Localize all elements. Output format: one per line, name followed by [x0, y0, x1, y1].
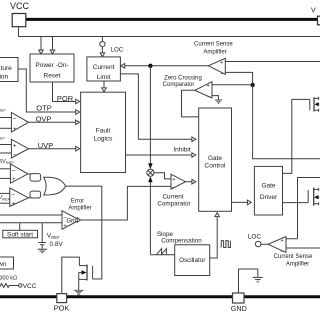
pin LOC (bottom)	[248, 234, 262, 247]
wire OVP to fault logics	[29, 121, 76, 123]
error amplifier Gm	[62, 211, 81, 230]
wire U2 output to gate control	[182, 90, 199, 117]
wire Inhibit: fault logics to gate control	[126, 154, 196, 156]
wire U2 minus input to ground	[212, 96, 219, 100]
wire U3 output to gate control	[186, 181, 196, 183]
svg-text:LOC: LOC	[111, 47, 124, 53]
ground (VREF source)	[38, 249, 48, 253]
comparator C3 input wires	[0, 168, 10, 170]
svg-text:Amplifier: Amplifier	[68, 206, 91, 212]
comparator UVP input wires	[0, 144, 11, 146]
svg-text:Compensation: Compensation	[161, 238, 202, 245]
wire LOC to current limit	[101, 47, 103, 53]
svg-text:Inhibit: Inhibit	[173, 146, 191, 153]
svg-text:VCC: VCC	[10, 1, 30, 11]
Temperature Protection block (clipped at left)	[0, 58, 18, 82]
svg-text:Reset: Reset	[44, 72, 61, 79]
svg-text:Current Sense: Current Sense	[194, 41, 233, 47]
wire rail to Power-On-Reset pin 2	[52, 37, 54, 51]
svg-text:Control: Control	[205, 163, 227, 170]
svg-text:UVP: UVP	[38, 141, 53, 150]
ground (internal, near GND pin)	[253, 277, 263, 281]
wire C4 to OR gate	[28, 197, 31, 199]
wire FB input to Gm minus	[0, 214, 62, 216]
svg-text:Current Sense: Current Sense	[274, 254, 313, 260]
svg-text:Zero Crossing: Zero Crossing	[164, 75, 202, 81]
solid arrow into summing node (top)	[148, 163, 152, 169]
pin VCC (pull-up, circle)	[19, 284, 22, 287]
wire A1 output to current limit	[121, 65, 209, 67]
svg-text:VREF: VREF	[47, 232, 60, 240]
svg-text:Driver: Driver	[260, 194, 278, 201]
wire oscillator to slope ramp	[150, 254, 174, 256]
svg-text:POR: POR	[57, 94, 74, 103]
comparator C4	[10, 188, 29, 208]
svg-text:+: +	[281, 238, 284, 244]
transistor Q2 (external bottom MOSFET, clipped)	[308, 188, 318, 206]
junction dot B	[250, 83, 254, 87]
transistor Q1 (external top MOSFET, clipped)	[310, 97, 319, 112]
wire oscillator clock to gate control	[210, 217, 218, 259]
svg-text:Error: Error	[71, 199, 84, 205]
wire oscillator ramp to summing node	[149, 182, 151, 255]
wire gate driver to Q1 gate	[283, 99, 310, 173]
wire A2 output to LOC pin	[261, 243, 268, 245]
svg-text:Protection: Protection	[0, 74, 9, 81]
comparator C4 input wires	[0, 192, 10, 194]
svg-text:OTP: OTP	[36, 104, 51, 113]
wire Gm output to current comparator minus	[80, 186, 172, 220]
svg-text:0.8V: 0.8V	[50, 241, 64, 248]
solid arrow into summing node (bottom)	[148, 176, 152, 182]
wire junction A down to summing node	[149, 66, 151, 164]
svg-text:+: +	[207, 83, 210, 89]
svg-text:+: +	[220, 60, 223, 66]
svg-text:VREF: VREF	[0, 195, 11, 201]
Current Limit block	[87, 57, 121, 81]
VCC rail (top thick wire)	[26, 18, 318, 21]
svg-text:Gate: Gate	[208, 155, 222, 162]
wire OR gate output to POK transistor gate	[66, 186, 102, 279]
svg-text:VREF: VREF	[0, 106, 6, 112]
wire gate driver to Q2 gate	[283, 202, 309, 204]
ground (zero crossing comparator)	[215, 100, 222, 103]
svg-text:Amplifier: Amplifier	[203, 49, 226, 55]
pin VCC	[10, 1, 30, 27]
comparator C3	[10, 164, 28, 183]
wire gate control to gate driver	[232, 201, 252, 203]
reference source VREF 0.8V	[38, 223, 46, 249]
svg-text:Amplifier: Amplifier	[286, 262, 309, 268]
current sense amplifier A1 (top)	[208, 58, 225, 77]
svg-text:Oscillator: Oscillator	[179, 257, 205, 264]
wire A2 top input	[286, 238, 298, 240]
svg-text:GND: GND	[231, 304, 247, 313]
svg-text:POK: POK	[54, 304, 70, 313]
slope ramp waveform glyph	[157, 249, 167, 255]
svg-text:Gate: Gate	[261, 182, 275, 189]
wire current limit to gate control (input 1)	[120, 74, 195, 139]
wire summing node to current comparator	[154, 173, 171, 179]
internal VCC net (thin rail)	[19, 36, 320, 38]
comparator OVP	[11, 113, 28, 134]
pin VIN (right edge, clipped)	[311, 8, 320, 25]
svg-text:Shutdown: Shutdown	[0, 261, 7, 268]
svg-text:Logics: Logics	[94, 135, 114, 142]
Gate Control block	[199, 108, 232, 211]
pin POK	[54, 294, 70, 313]
OR gate U-or	[44, 177, 66, 195]
svg-text:Fault: Fault	[96, 127, 111, 134]
svg-text:+: +	[12, 177, 16, 183]
bottom ground rail (thick wire)	[0, 295, 320, 298]
wire rail to Power-On-Reset pin 1	[40, 37, 42, 51]
wire soft start to plus rail	[19, 223, 21, 231]
pin LOC (top)	[100, 37, 124, 54]
Soft start block	[3, 230, 38, 238]
svg-text:+: +	[64, 224, 67, 230]
wire node B down to sense line	[253, 85, 320, 159]
OR gate input tabs	[30, 174, 41, 182]
svg-text:+: +	[12, 202, 16, 208]
wire U2 plus input to node B	[212, 84, 253, 86]
resistor R1 300k pull-up	[0, 284, 19, 288]
clock waveform glyph	[221, 241, 230, 248]
wire current limit to fault logics	[103, 81, 105, 88]
svg-text:300 kΩ: 300 kΩ	[0, 276, 17, 282]
svg-text:Soft start: Soft start	[7, 231, 33, 238]
svg-text:Gm: Gm	[67, 218, 77, 224]
wire Q2 sense node	[298, 178, 320, 239]
svg-text:+: +	[13, 127, 17, 133]
Gate Driver block	[254, 166, 282, 215]
svg-text:Temperature: Temperature	[0, 65, 12, 72]
svg-text:LOC: LOC	[248, 234, 262, 241]
svg-text:Comparator: Comparator	[157, 200, 190, 207]
wire VCC pin to internal rail	[18, 27, 20, 37]
wire C3 to OR gate	[28, 173, 31, 175]
wire A2 bottom input to right edge	[286, 247, 320, 249]
ground (POK transistor)	[74, 290, 83, 295]
svg-text:Limit: Limit	[97, 74, 111, 81]
wire POR: power-on-reset to fault logics	[53, 82, 76, 102]
comparator OVP input wires	[0, 117, 11, 119]
svg-text:5VREF: 5VREF	[0, 159, 14, 165]
svg-text:Power -On-: Power -On-	[35, 62, 68, 69]
pin GND	[231, 293, 247, 313]
svg-text:Current: Current	[163, 193, 184, 200]
transistor Q3 (POK open drain)	[79, 265, 93, 291]
svg-text:+: +	[13, 144, 17, 150]
zero crossing comparator U2	[195, 82, 212, 100]
current sense amplifier A2 (bottom)	[268, 237, 286, 255]
wire A1 bottom input to node B	[225, 72, 252, 85]
wire OTP: temperature block to fault logics	[18, 69, 76, 112]
svg-text:Comparator: Comparator	[163, 82, 195, 88]
comparator UVP	[11, 139, 28, 158]
svg-text:+: +	[172, 177, 175, 183]
wire A1 top input to right edge	[225, 61, 320, 63]
wire GND pin to internal ground	[239, 269, 258, 293]
junction dot A	[148, 64, 152, 68]
svg-text:Current: Current	[93, 64, 115, 71]
Shutdown block (clipped at left)	[0, 257, 14, 269]
wire UVP to fault logics	[29, 148, 76, 150]
svg-text:VCC: VCC	[23, 283, 37, 290]
svg-text:V: V	[311, 8, 316, 15]
summing node (slope compensation adder)	[147, 169, 154, 176]
wire soft start / vref to Gm plus	[0, 222, 62, 224]
Power-On-Reset block	[30, 54, 74, 82]
current comparator U3	[171, 174, 186, 190]
svg-text:OVP: OVP	[36, 114, 52, 123]
Fault Logics block	[81, 92, 126, 172]
wire POK pin to Q3 drain	[62, 257, 80, 294]
Oscillator block	[175, 245, 210, 276]
svg-text:VREF: VREF	[0, 134, 5, 140]
